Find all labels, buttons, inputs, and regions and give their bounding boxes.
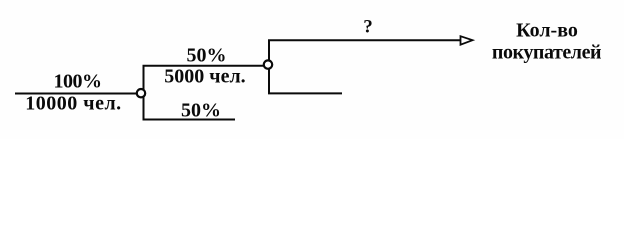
- svg-text:5000 чел.: 5000 чел.: [164, 66, 245, 88]
- svg-text:?: ?: [363, 17, 373, 38]
- svg-text:100%: 100%: [54, 71, 102, 93]
- svg-text:50%: 50%: [181, 100, 221, 122]
- svg-text:50%: 50%: [187, 45, 227, 67]
- svg-text:покупателей: покупателей: [492, 42, 601, 64]
- svg-text:Кол-во: Кол-во: [516, 20, 578, 42]
- svg-text:10000 чел.: 10000 чел.: [25, 93, 121, 115]
